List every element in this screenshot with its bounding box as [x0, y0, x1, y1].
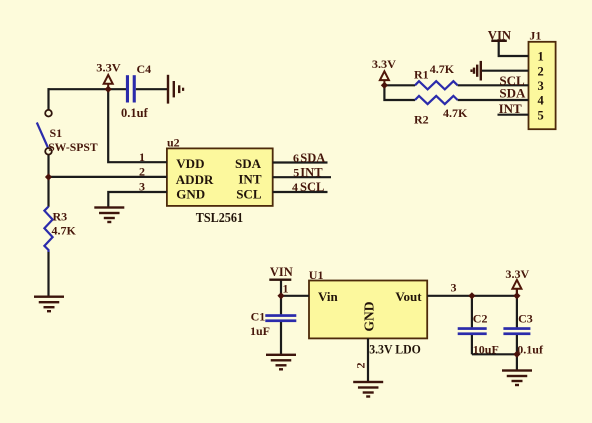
svg-text:SW-SPST: SW-SPST — [48, 140, 97, 154]
svg-text:J1: J1 — [529, 28, 541, 42]
svg-text:GND: GND — [176, 186, 205, 201]
svg-text:SCL: SCL — [236, 186, 262, 201]
svg-text:INT: INT — [499, 101, 522, 116]
svg-text:INT: INT — [300, 165, 323, 179]
svg-text:VIN: VIN — [488, 28, 511, 42]
svg-text:4: 4 — [538, 94, 545, 108]
svg-text:R2: R2 — [414, 113, 429, 127]
svg-text:U1: U1 — [309, 268, 324, 282]
svg-text:6: 6 — [293, 151, 299, 165]
svg-text:R3: R3 — [53, 209, 68, 223]
svg-text:3.3V: 3.3V — [96, 60, 121, 74]
svg-text:R1: R1 — [414, 67, 429, 81]
svg-text:C1: C1 — [251, 309, 266, 323]
svg-text:4.7K: 4.7K — [52, 223, 77, 237]
svg-text:4: 4 — [292, 180, 298, 194]
svg-text:INT: INT — [238, 171, 261, 186]
svg-text:C2: C2 — [473, 312, 488, 326]
svg-text:S1: S1 — [50, 126, 63, 140]
svg-text:VIN: VIN — [270, 265, 293, 279]
svg-text:SDA: SDA — [300, 151, 325, 165]
svg-text:TSL2561: TSL2561 — [196, 210, 244, 225]
svg-text:3.3V: 3.3V — [372, 57, 396, 71]
svg-text:Vin: Vin — [318, 289, 339, 304]
svg-text:3.3V: 3.3V — [505, 267, 529, 281]
svg-text:ADDR: ADDR — [176, 172, 214, 187]
svg-text:4.7K: 4.7K — [430, 62, 455, 76]
svg-text:1: 1 — [283, 282, 289, 296]
svg-text:10uF: 10uF — [473, 343, 499, 357]
svg-text:0.1uf: 0.1uf — [517, 343, 544, 357]
svg-text:3: 3 — [538, 79, 544, 93]
svg-text:3.3V LDO: 3.3V LDO — [369, 342, 421, 357]
svg-text:1: 1 — [538, 50, 544, 64]
svg-text:u2: u2 — [167, 135, 180, 149]
svg-text:2: 2 — [354, 363, 368, 369]
svg-text:Vout: Vout — [395, 289, 422, 304]
svg-text:2: 2 — [538, 64, 544, 78]
svg-text:2: 2 — [139, 164, 145, 178]
svg-text:SCL: SCL — [300, 180, 324, 194]
svg-text:3: 3 — [451, 281, 457, 295]
svg-text:5: 5 — [538, 108, 544, 122]
svg-text:1uF: 1uF — [250, 324, 270, 338]
svg-text:GND: GND — [362, 301, 377, 331]
svg-text:C4: C4 — [137, 62, 152, 76]
svg-text:SDA: SDA — [499, 86, 526, 101]
svg-text:C3: C3 — [518, 312, 533, 326]
svg-text:5: 5 — [293, 165, 299, 179]
svg-text:4.7K: 4.7K — [443, 106, 468, 120]
svg-text:0.1uf: 0.1uf — [121, 106, 149, 120]
svg-text:SDA: SDA — [235, 156, 262, 171]
svg-text:1: 1 — [139, 150, 145, 164]
svg-text:VDD: VDD — [176, 156, 204, 171]
svg-text:3: 3 — [139, 179, 145, 193]
